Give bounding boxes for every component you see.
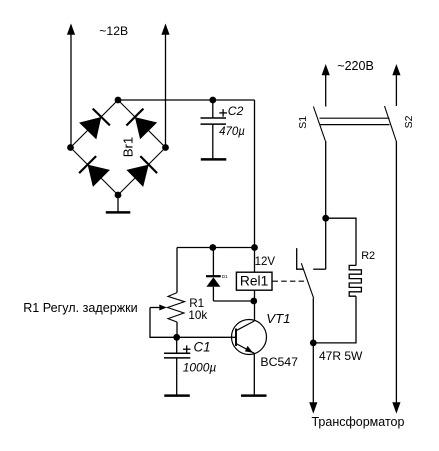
switch S1 lever xyxy=(313,107,325,142)
ground: below C1 xyxy=(164,394,190,397)
node: bridge top node xyxy=(115,97,122,104)
relay coil Rel1 (box) xyxy=(236,272,272,290)
wire: D1 anode to collector junction xyxy=(213,300,253,302)
diode: bridge diode (L to T arm) xyxy=(79,109,110,140)
wire: R2 bottom lead to junction xyxy=(313,296,356,343)
node: bridge left node xyxy=(67,144,74,151)
relay contact: NC fixed contact stub xyxy=(297,248,304,269)
arrow: emitter arrowhead xyxy=(245,346,253,353)
resistor R2 (meander winding) xyxy=(349,265,361,296)
mechanical link: S1-S2 ganged (double line) xyxy=(320,118,390,124)
arrow: transformer right down-arrow xyxy=(392,402,400,413)
svg-text:R2: R2 xyxy=(361,250,375,262)
wire: right AC input stem xyxy=(165,25,167,148)
node: base node junction xyxy=(173,334,180,341)
label + (C2 polarity) xyxy=(219,109,227,117)
svg-text:BC547: BC547 xyxy=(260,355,298,369)
svg-text:R1 Регул. задержки: R1 Регул. задержки xyxy=(23,301,138,315)
dashed mechanical link: Rel1 to contact lever xyxy=(273,280,306,282)
wire: bridge arm L-T xyxy=(71,100,119,148)
ground: below C2 xyxy=(201,158,227,161)
wire: S2 AC stem xyxy=(395,66,397,106)
capacitor C2 xyxy=(201,100,227,159)
relay contact lever xyxy=(301,263,313,298)
label + (C1 polarity) xyxy=(183,345,191,353)
svg-text:~220В: ~220В xyxy=(337,59,374,73)
node: collector junction xyxy=(250,298,257,305)
ground: below bridge xyxy=(106,195,131,212)
wire: horizontal 12V distribution wire xyxy=(177,247,255,249)
transistor VT1 base bar xyxy=(235,329,237,347)
svg-text:470µ: 470µ xyxy=(219,126,245,138)
wire: left AC input stem xyxy=(70,25,72,148)
svg-text:C2: C2 xyxy=(228,104,244,118)
svg-text:47R 5W: 47R 5W xyxy=(319,349,363,363)
diode: bridge diode (B to L arm) xyxy=(79,156,110,187)
wire: bridge top to C2 and right rail xyxy=(118,99,255,101)
switch S2 lever xyxy=(385,106,397,141)
wire: base node to transistor base xyxy=(177,336,236,338)
svg-text:Трансформатор: Трансформатор xyxy=(312,415,405,429)
ground: below emitter xyxy=(241,394,267,397)
capacitor C1 xyxy=(164,337,190,395)
wire: 12V wire down to R1 xyxy=(176,248,178,293)
wire: bridge arm B-R xyxy=(118,148,166,196)
wire: S1 AC stem xyxy=(325,66,327,107)
arrow: ~220V left up-arrow xyxy=(322,64,330,75)
wire: rail into relay coil xyxy=(254,248,256,273)
diode: bridge diode (B to R arm) xyxy=(126,156,157,187)
wire: branch to R2 xyxy=(326,218,356,265)
svg-text:S1: S1 xyxy=(297,116,309,129)
svg-text:C1: C1 xyxy=(194,339,211,354)
node: bridge right node xyxy=(162,144,169,151)
arrow: ~220V right up-arrow xyxy=(392,64,400,75)
wire: lever common down to junction xyxy=(312,298,314,343)
svg-text:10k: 10k xyxy=(188,309,207,322)
node: 12V rail junction xyxy=(251,244,258,251)
wiper arm of R1 xyxy=(150,305,177,338)
wire: emitter down to ground xyxy=(253,353,255,395)
wire: bridge arm L-B xyxy=(71,148,119,196)
svg-text:Rel1: Rel1 xyxy=(240,273,268,288)
transistor VT1 collector stroke xyxy=(236,321,254,331)
wire: right rail from C2 corner down to 12V node xyxy=(254,100,256,248)
svg-text:VT1: VT1 xyxy=(266,311,290,326)
diode D1 (relay flyback, cathode up) xyxy=(206,248,221,302)
wire: bridge arm T-R xyxy=(118,100,166,148)
svg-text:12V: 12V xyxy=(255,256,276,268)
wire: to transformer (left) xyxy=(312,343,314,412)
diode: bridge diode (R to T arm) xyxy=(126,109,157,140)
node: transformer branch junction xyxy=(310,340,317,347)
wire: relay coil bottom to collector junction xyxy=(254,290,256,321)
wire: S1 to relay contact / R2 junction xyxy=(325,141,327,269)
svg-text:D1: D1 xyxy=(222,274,228,279)
node: D1 top junction xyxy=(209,244,216,251)
arrow: right AC input up-arrow xyxy=(161,24,169,35)
node: R2 branch junction xyxy=(322,215,329,222)
wire: S2 to transformer (right) xyxy=(395,141,397,412)
transistor VT1 emitter stroke xyxy=(236,344,254,354)
arrow: transformer left down-arrow xyxy=(309,402,317,413)
relay contact: NO fixed contact (from S1 wire) xyxy=(313,268,326,270)
wire: R1 bottom lead xyxy=(176,322,178,337)
svg-text:~12В: ~12В xyxy=(99,24,128,38)
svg-text:S2: S2 xyxy=(403,115,415,128)
resistor R1 (zigzag potentiometer) xyxy=(168,293,185,322)
arrow: left AC input up-arrow xyxy=(67,24,75,35)
svg-text:Br1: Br1 xyxy=(121,137,136,158)
node: C2 top junction xyxy=(209,97,216,104)
node: bridge bottom node xyxy=(115,192,122,199)
svg-text:1000µ: 1000µ xyxy=(183,361,217,375)
transistor VT1 circle xyxy=(232,320,267,355)
